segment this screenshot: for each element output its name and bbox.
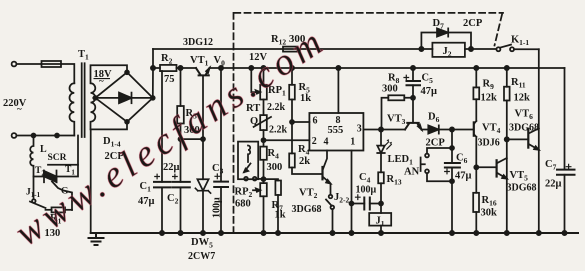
node gnd c2 bbox=[178, 231, 182, 235]
resistor R3 with C2 branch bbox=[180, 68, 182, 233]
svg-text:75: 75 bbox=[164, 74, 175, 85]
resistor R12 bbox=[283, 47, 298, 52]
wire R3 to zener link bbox=[181, 138, 204, 140]
node rail-R2 right bbox=[178, 66, 182, 70]
svg-text:300: 300 bbox=[267, 162, 283, 173]
transformer T1 secondary winding bbox=[91, 65, 128, 129]
dashed box bbox=[234, 13, 504, 233]
AC terminal bottom bbox=[12, 133, 17, 138]
svg-text:4: 4 bbox=[324, 137, 329, 148]
svg-text:3DG12: 3DG12 bbox=[183, 37, 213, 48]
svg-text:680: 680 bbox=[235, 199, 251, 210]
wire secondary to bridge left bbox=[93, 97, 95, 99]
svg-text:2: 2 bbox=[312, 136, 317, 147]
wire pin8 bbox=[337, 68, 339, 113]
wire pin3 node to VT3 bbox=[381, 129, 405, 131]
svg-text:2CP: 2CP bbox=[463, 18, 483, 29]
wire triac T1 side bbox=[57, 136, 79, 177]
capacitor C2 plates bbox=[172, 182, 189, 188]
svg-text:30k: 30k bbox=[481, 208, 498, 219]
node bridge right bbox=[151, 96, 155, 100]
svg-text:AN: AN bbox=[404, 167, 420, 178]
svg-text:1k: 1k bbox=[275, 210, 286, 221]
wire pin1 bbox=[351, 151, 353, 234]
capacitor C4 bbox=[352, 203, 382, 205]
relay coil J1 box bbox=[369, 213, 391, 226]
transistor VT3 bbox=[405, 123, 422, 130]
LED LED1 bbox=[380, 130, 382, 173]
svg-text:6: 6 bbox=[313, 116, 318, 127]
svg-text:3DG68: 3DG68 bbox=[509, 123, 539, 134]
svg-text:47μ: 47μ bbox=[421, 86, 438, 97]
diode D7 loop bbox=[421, 33, 471, 50]
node gnd c3 bbox=[219, 231, 223, 235]
capacitor C5 bbox=[412, 68, 414, 98]
AC terminal top bbox=[12, 62, 17, 67]
wire pin3 bbox=[363, 129, 381, 131]
transistor VT1 bbox=[196, 68, 210, 75]
wire K line down bbox=[538, 49, 540, 233]
svg-text:3DJ6: 3DJ6 bbox=[478, 138, 500, 149]
node D6 out bbox=[450, 127, 454, 131]
transformer T1 primary winding bbox=[70, 83, 75, 135]
node bridge top bbox=[125, 70, 129, 74]
inductor L bbox=[30, 136, 44, 177]
svg-text:3: 3 bbox=[357, 124, 362, 135]
svg-text:1k: 1k bbox=[300, 93, 311, 104]
transistor VT2 bbox=[321, 167, 323, 179]
thermistor RT bbox=[260, 115, 267, 130]
wire gate G bbox=[52, 182, 72, 211]
wire top raw rail bbox=[153, 48, 496, 50]
svg-text:2CW7: 2CW7 bbox=[188, 251, 215, 262]
svg-text:2.2k: 2.2k bbox=[267, 102, 286, 113]
resistor R9 bbox=[475, 68, 477, 121]
transformer T1 core bbox=[82, 63, 85, 137]
svg-text:3DG68: 3DG68 bbox=[507, 183, 537, 194]
svg-text:3DG68: 3DG68 bbox=[292, 204, 322, 215]
resistor R6 2k bbox=[289, 153, 295, 167]
transistor VT5 bbox=[476, 166, 496, 168]
svg-text:22μ: 22μ bbox=[545, 179, 562, 190]
bridge rectifier D1-4 diamond bbox=[95, 72, 153, 122]
resistor R4 300 bbox=[260, 147, 267, 160]
switch J1-1 bbox=[33, 177, 35, 200]
node rail-R2 left bbox=[151, 66, 155, 70]
svg-text:47μ: 47μ bbox=[455, 171, 472, 182]
wire to R1 bbox=[46, 209, 52, 211]
wire pin2 bbox=[264, 139, 310, 141]
svg-text:2.2k: 2.2k bbox=[269, 125, 288, 136]
svg-text:300: 300 bbox=[382, 84, 398, 95]
wire output right edge bbox=[564, 68, 566, 233]
node bridge left bbox=[93, 96, 97, 100]
resistor R5 bbox=[291, 68, 293, 153]
triac SCR bbox=[44, 171, 57, 183]
node pin2 tap bbox=[262, 138, 266, 142]
resistor R11 bbox=[506, 68, 508, 233]
wire pin4 bbox=[323, 151, 327, 170]
svg-text:L: L bbox=[40, 144, 47, 155]
wire AC top bbox=[16, 63, 41, 65]
capacitor C6 bbox=[451, 130, 453, 234]
ground symbol bbox=[89, 233, 104, 245]
relay K coil box with contact bbox=[238, 142, 258, 180]
wire AC bottom bbox=[16, 135, 74, 137]
fuse FU bbox=[42, 61, 62, 67]
svg-text:2CP: 2CP bbox=[426, 138, 446, 149]
wire box segment over triac bbox=[48, 164, 78, 166]
capacitor C3 bbox=[220, 68, 222, 233]
resistor R1 bbox=[52, 207, 66, 212]
node gnd c1 bbox=[160, 231, 164, 235]
capacitor C1 bbox=[161, 71, 163, 233]
svg-text:100μ: 100μ bbox=[212, 197, 223, 218]
resistor R13 bbox=[378, 172, 384, 183]
node gnd dw5 bbox=[201, 231, 205, 235]
bridge inner diode bbox=[95, 97, 153, 99]
wire raw DC riser bbox=[152, 49, 154, 98]
resistor R16 bbox=[473, 193, 479, 212]
wire VT3 base bbox=[412, 98, 414, 123]
potentiometer RP1 bbox=[263, 68, 265, 115]
wire 12V rail bbox=[153, 67, 565, 69]
node divider tap bbox=[262, 177, 266, 181]
wire pin6 bbox=[292, 121, 309, 123]
relay coil J2 box bbox=[432, 43, 465, 57]
ground rail bbox=[91, 232, 578, 234]
svg-text:12k: 12k bbox=[514, 93, 531, 104]
node bridge bottom bbox=[125, 120, 129, 124]
svg-text:2k: 2k bbox=[299, 156, 310, 167]
node AC bottom junction b bbox=[55, 134, 59, 138]
wire fuse to transformer bbox=[61, 64, 74, 83]
transistor VT6 bbox=[507, 138, 529, 140]
switch K1-1 bbox=[496, 47, 500, 51]
svg-text:~: ~ bbox=[99, 76, 104, 86]
svg-text:Q: Q bbox=[250, 116, 258, 127]
node pin6 tap bbox=[290, 120, 294, 124]
svg-text:SCR: SCR bbox=[48, 153, 67, 163]
potentiometer RP2 bbox=[260, 183, 267, 196]
switch J2-2 bbox=[329, 195, 333, 199]
svg-text:12k: 12k bbox=[481, 93, 498, 104]
IC 555 box bbox=[309, 113, 363, 151]
svg-text:100μ: 100μ bbox=[356, 185, 377, 196]
svg-text:555: 555 bbox=[328, 125, 344, 136]
FET VT4 bbox=[473, 122, 475, 135]
capacitor C7 bbox=[557, 170, 575, 175]
diode D6 bbox=[422, 129, 429, 131]
zener DW5 bbox=[202, 76, 204, 233]
node AC bottom junction a bbox=[32, 134, 36, 138]
svg-text:1: 1 bbox=[350, 137, 355, 148]
resistor R8 bbox=[382, 98, 414, 130]
svg-text:47μ: 47μ bbox=[138, 196, 155, 207]
resistor R2 bbox=[160, 65, 177, 71]
pushbutton AN bbox=[427, 148, 452, 154]
resistor R7 bbox=[264, 179, 279, 180]
wire VT4 source to VT5 bbox=[475, 137, 477, 193]
wire bridge bottom to ground bbox=[91, 122, 127, 233]
